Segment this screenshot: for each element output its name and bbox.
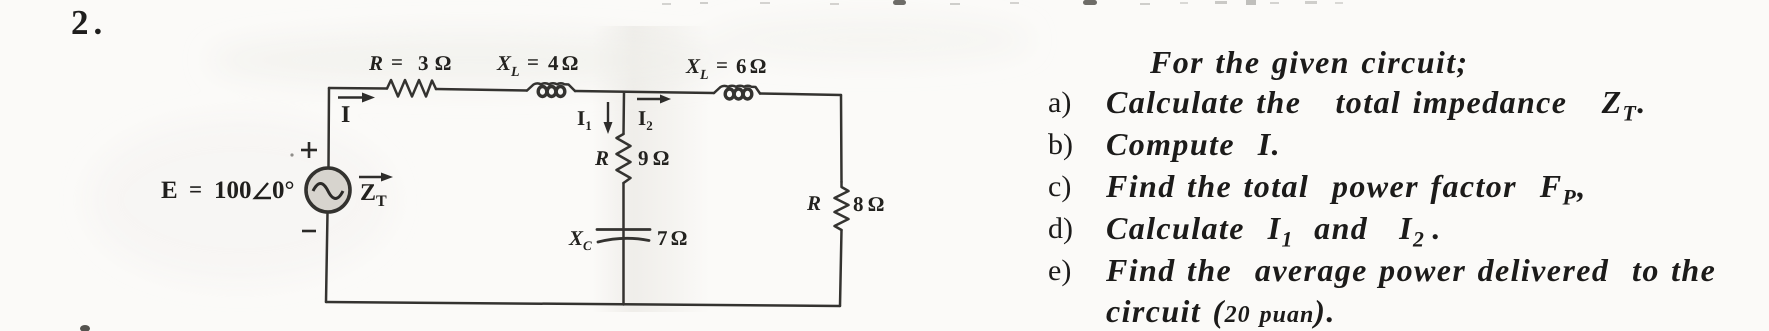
svg-text:=: = — [527, 50, 539, 74]
svg-text:Ω: Ω — [653, 146, 669, 170]
inductor XL = 4 ohm — [527, 83, 575, 91]
problem number 2. — [71, 3, 107, 43]
resistor R = 3 ohm (zigzag) — [387, 80, 436, 97]
svg-text:E: E — [161, 177, 179, 204]
svg-text:R: R — [368, 51, 383, 75]
svg-text:Ω: Ω — [868, 192, 884, 216]
label R = 3 ohm — [368, 50, 451, 75]
resistor R 9 ohm (middle zigzag) — [617, 134, 631, 183]
item a — [1048, 88, 1071, 118]
wire middle branch upper — [622, 92, 625, 134]
wire top-left segment — [329, 87, 387, 90]
item b — [1048, 130, 1073, 160]
svg-text:100: 100 — [214, 177, 252, 204]
inductor XL=4 loops — [538, 87, 565, 97]
svg-text:Ω: Ω — [562, 51, 578, 75]
wire left lower (source bottom lead) — [326, 213, 328, 302]
wire top junction segment — [575, 91, 714, 93]
wire right lower — [840, 230, 842, 306]
scanner gray band — [592, 26, 710, 312]
paper speck — [290, 153, 293, 156]
label XL = 6 ohm — [685, 53, 766, 83]
heading: For the given circuit; — [1150, 46, 1469, 78]
inductor XL=6 loops — [725, 89, 752, 99]
item c — [1048, 172, 1071, 202]
page-top scan artifacts — [662, 0, 1343, 5]
svg-text:I: I — [341, 102, 350, 128]
label minus — [302, 230, 316, 233]
wire right upper — [840, 95, 843, 182]
capacitor Xc top plate — [597, 228, 650, 231]
label ZT with arrow — [359, 173, 393, 211]
svg-text:=: = — [391, 50, 403, 74]
wire middle between R and Xc — [622, 183, 625, 305]
svg-text:XC: XC — [568, 226, 592, 253]
svg-text:R: R — [594, 146, 609, 170]
current I arrow — [338, 93, 375, 103]
resistor R 8 ohm (right branch zigzag) — [835, 182, 849, 230]
svg-text:9: 9 — [638, 146, 649, 170]
item d — [1048, 214, 1073, 244]
svg-text:4: 4 — [548, 51, 559, 75]
svg-text:Ω: Ω — [671, 226, 687, 250]
label + — [301, 142, 317, 158]
svg-text:I1: I1 — [577, 106, 592, 133]
svg-text:0°: 0° — [272, 177, 295, 204]
wire left upper (source top lead) — [327, 88, 330, 167]
svg-text:R: R — [806, 191, 821, 215]
svg-text:=: = — [189, 177, 202, 202]
capacitor Xc bottom plate (curved) — [598, 238, 649, 242]
svg-text:=: = — [716, 53, 728, 77]
wire bottom — [326, 302, 840, 306]
ac source E (circle with sine) — [306, 168, 350, 212]
inductor XL = 6 ohm — [714, 86, 760, 94]
item e continued — [1106, 295, 1336, 327]
svg-text:7: 7 — [657, 226, 668, 250]
svg-text:6: 6 — [736, 54, 747, 78]
svg-text:Ω: Ω — [435, 51, 451, 75]
current I2 label and arrow — [637, 95, 671, 104]
wire top-right segment — [760, 94, 841, 96]
svg-text:3: 3 — [418, 51, 429, 75]
svg-text:Ω: Ω — [750, 54, 766, 78]
svg-text:8: 8 — [853, 192, 864, 216]
page-bottom scan artifact (next problem number) — [80, 325, 90, 331]
wire top middle segment — [436, 89, 527, 91]
label XL = 4 ohm — [496, 50, 578, 80]
angle symbol — [255, 183, 271, 198]
item e — [1048, 256, 1071, 286]
